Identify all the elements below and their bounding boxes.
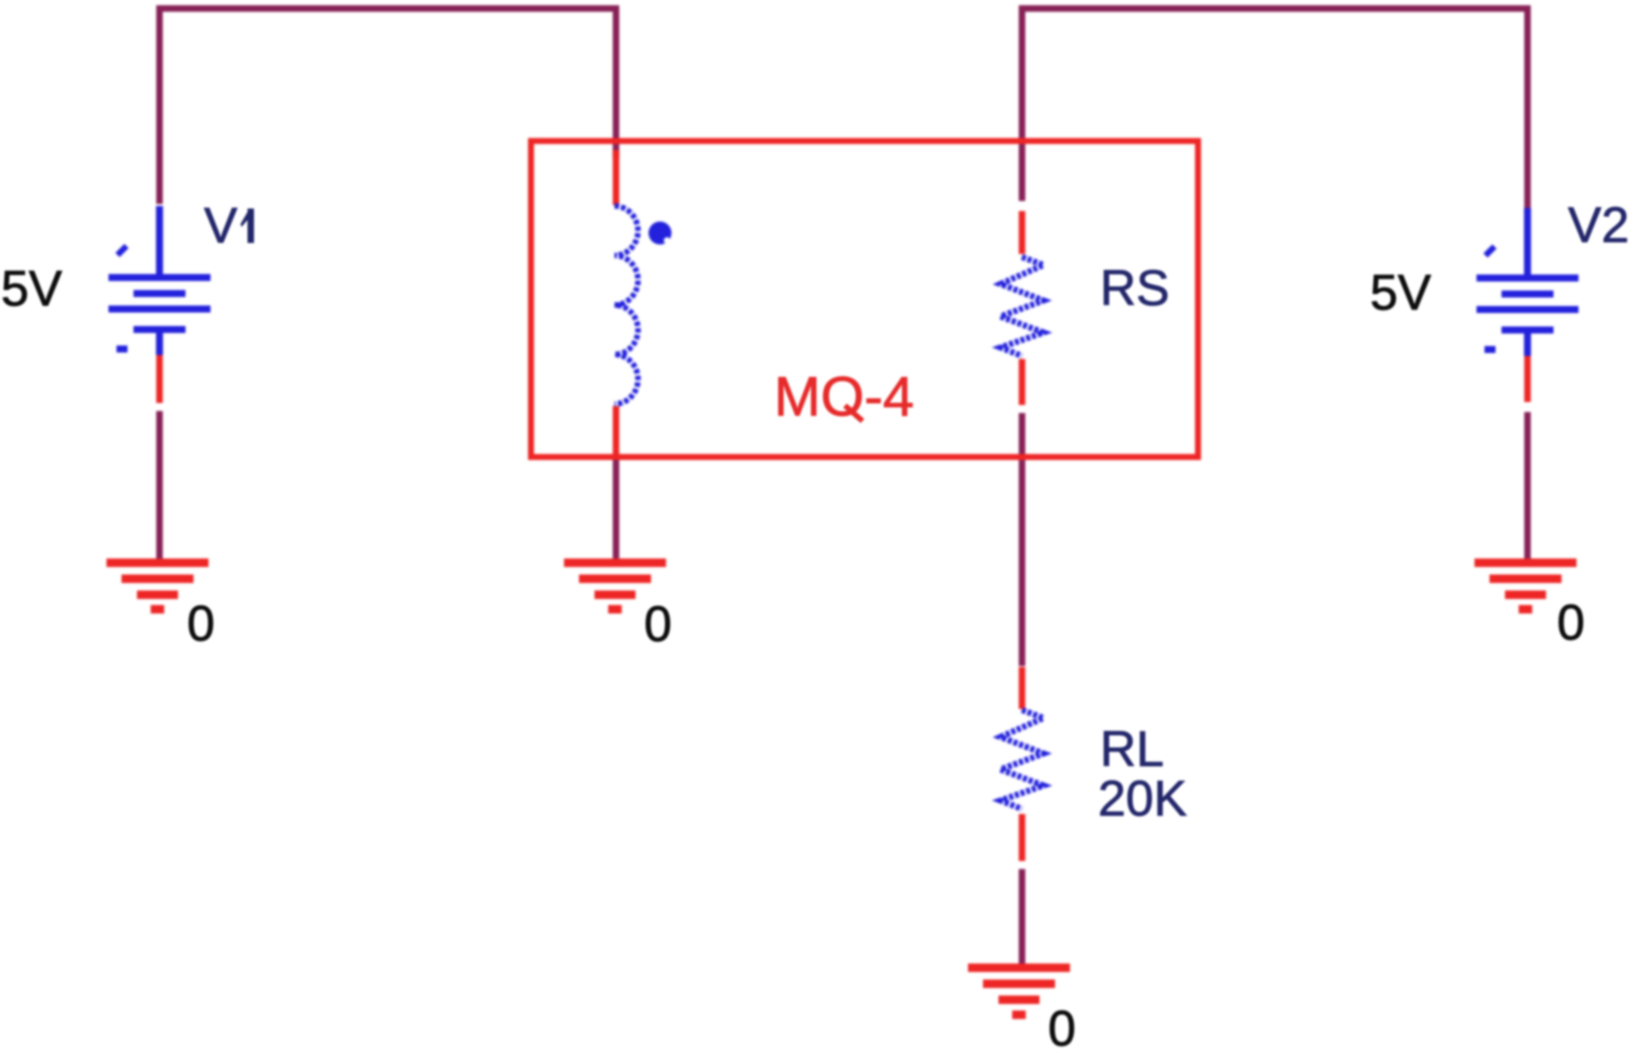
svg-text:V2: V2 (1568, 197, 1629, 253)
svg-text:0: 0 (1048, 1001, 1076, 1056)
svg-text:20K: 20K (1098, 771, 1187, 827)
svg-text:RL: RL (1100, 721, 1164, 777)
svg-text:0: 0 (1557, 595, 1585, 651)
svg-text:V: V (204, 198, 238, 254)
svg-text:0: 0 (644, 596, 672, 652)
svg-text:RS: RS (1100, 260, 1169, 316)
svg-text:5V: 5V (1, 261, 63, 317)
svg-text:MO-4: MO-4 (774, 365, 914, 428)
svg-text:5V: 5V (1370, 265, 1432, 321)
svg-text:0: 0 (187, 596, 215, 652)
